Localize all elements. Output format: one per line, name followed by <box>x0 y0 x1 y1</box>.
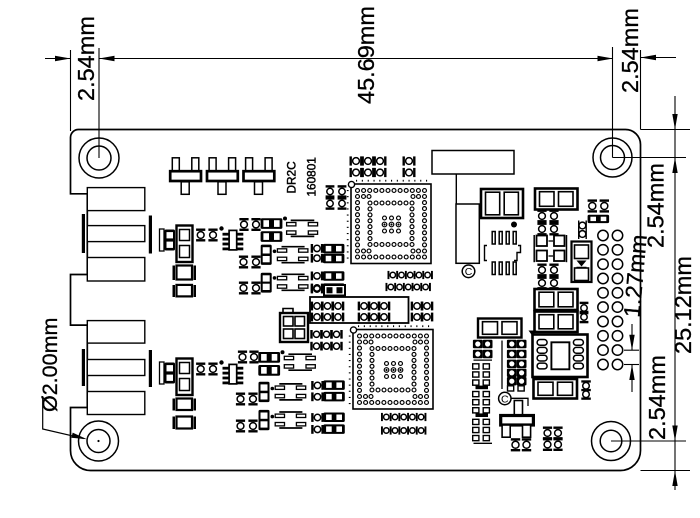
channel2 mid dark comp vertical <box>259 382 270 402</box>
connector J2 pad 2 <box>87 360 145 376</box>
extension line top-left hole center <box>98 48 100 158</box>
extension line board right edge top <box>640 50 642 130</box>
pin header J3 2x10 circles <box>598 230 623 369</box>
channel2 row1 pads <box>238 351 247 364</box>
wire from copyright mark <box>511 398 528 406</box>
extension line board left edge <box>70 50 72 131</box>
dimension line top-right 2.54mm <box>641 57 677 59</box>
pad chain U5 lower A <box>381 413 426 421</box>
svg-text:25.12mm: 25.12mm <box>670 256 696 354</box>
component L1 <box>177 226 193 263</box>
resistor strip B dark pads <box>507 340 517 348</box>
channel1 mid pads <box>239 256 248 269</box>
channel2 jumper JP4 <box>284 354 315 370</box>
BGA footprint U1 <box>347 180 431 264</box>
svg-text:45.69mm: 45.69mm <box>353 6 379 104</box>
dimension line 45.69mm <box>99 58 613 60</box>
dark comp above K1 <box>324 285 345 296</box>
pad D3 <box>173 399 176 411</box>
svg-text:2.54mm: 2.54mm <box>644 355 670 440</box>
SOIC U6 vertical <box>485 232 521 275</box>
PCB board outline <box>71 130 641 471</box>
pads near silkscreen 2x2 <box>326 185 335 198</box>
capacitor C2 dark <box>165 363 176 384</box>
extension line top-right hole center right <box>613 157 687 159</box>
connector J1 pad 1 <box>87 188 145 211</box>
channel1 right pads row2 <box>311 254 324 263</box>
mid square pads <box>533 235 535 262</box>
leader line to bottom-left hole <box>43 396 84 439</box>
component C21 mid <box>535 289 578 310</box>
channel1 mid dark comp vertical <box>261 245 272 265</box>
component X1 four-pad <box>283 309 293 314</box>
pads right of C23 <box>581 380 591 382</box>
strip B white pads <box>508 386 514 391</box>
channel1 right pads row3 <box>311 272 324 281</box>
channel2 right pads row3 <box>311 413 324 422</box>
pad strip right of J1 <box>160 229 165 251</box>
channel1 right pads row1 <box>311 244 324 253</box>
antenna area rectangle <box>432 151 514 175</box>
connector J2 pad 3 <box>87 392 145 415</box>
mounting hole bottom-left <box>79 421 119 461</box>
svg-text:2.54mm: 2.54mm <box>617 8 643 93</box>
pad chain U5 lower B <box>381 426 426 434</box>
strip A bar 2 <box>476 413 489 417</box>
K1 pads group A <box>311 302 324 311</box>
pad D4 <box>173 417 176 430</box>
connector J2 pad 1 <box>87 321 145 344</box>
mid pads col B <box>537 264 546 277</box>
mounting hole bottom-right <box>592 422 631 461</box>
extension line board bottom edge right <box>641 470 691 472</box>
BGA footprint U5 <box>349 325 433 409</box>
vertical pads x584 low <box>580 302 589 315</box>
connector J1 side bars <box>82 214 85 253</box>
channel1 row1 dark comp <box>261 218 283 229</box>
arrows 1.27mm <box>631 324 633 350</box>
antenna feed line <box>455 174 457 204</box>
SOIC U4 channel 2 <box>223 364 244 384</box>
fiducial dot <box>511 222 517 228</box>
channel1 jumper JP2 <box>277 247 308 263</box>
connector J2 side bars <box>82 349 85 386</box>
channel1 jumper JP3 <box>277 274 308 290</box>
component L2 <box>177 359 193 396</box>
channel1 right pads row4 <box>311 284 324 293</box>
capacitor C1 dark <box>165 230 176 251</box>
resistor pair ch2 <box>196 363 205 376</box>
svg-text:2.54mm: 2.54mm <box>73 16 99 101</box>
channel2 jumper JP6 <box>275 412 305 428</box>
channel1 row1 pads <box>239 218 248 231</box>
dimension line top-left 2.54mm <box>45 58 71 60</box>
resistor pair right <box>403 156 416 165</box>
component box below antenna <box>456 204 479 263</box>
channel2 low pads <box>236 420 245 433</box>
mounting hole top-left <box>79 138 119 178</box>
mid pads col A <box>537 210 546 223</box>
svg-text:160801: 160801 <box>305 157 319 196</box>
channel1 jumper JP1 <box>287 220 318 236</box>
strip A pad pairs lower <box>473 419 479 424</box>
resistor pair ch1 <box>196 229 205 242</box>
component C24 <box>478 319 522 338</box>
svg-text:Ø2.00mm: Ø2.00mm <box>38 318 62 412</box>
pads 2x2 right of switch <box>543 427 552 440</box>
svg-text:C: C <box>501 393 509 405</box>
pads above K1 left <box>311 285 324 294</box>
switch SW1 <box>514 401 522 417</box>
pads below K1 group <box>310 330 322 339</box>
channel2 right pads row4 <box>311 425 324 434</box>
strip A end line <box>474 442 493 444</box>
pads below switch <box>511 438 520 451</box>
strip A pad pairs upper <box>473 364 479 369</box>
connector J1 pad 2 <box>87 226 145 242</box>
strip A separator <box>474 359 493 361</box>
pads right of K1 <box>411 302 424 311</box>
strip A bar 1 <box>476 386 489 390</box>
resistor row R top A <box>350 156 363 165</box>
svg-text:DR2C: DR2C <box>285 161 299 194</box>
transistor Q3 <box>244 158 275 195</box>
component C23 below QFN <box>534 379 578 399</box>
pad strip right of J2 <box>160 362 165 384</box>
connector J1 pad 3 <box>87 258 145 282</box>
pad D1 <box>173 266 176 281</box>
transistor Q2 <box>207 158 238 195</box>
copyright mark circle <box>462 265 475 278</box>
channel2 right pads row2 <box>311 392 324 401</box>
channel1 low dark comp vertical <box>261 273 272 293</box>
SOIC U3 channel 1 <box>223 230 244 250</box>
transistor Q1 <box>170 158 201 195</box>
vertical pads x582 <box>578 221 580 240</box>
strip A pad pairs middle <box>473 392 479 397</box>
extension line bottom-right hole center right <box>611 440 686 442</box>
svg-text:C: C <box>465 266 473 278</box>
channel2 row1 dark comp <box>258 352 280 363</box>
pads pair top right <box>588 199 597 212</box>
extension line top-right hole center <box>612 47 614 158</box>
pad chain U1 lower B <box>386 283 431 291</box>
channel2 mid pads <box>236 393 245 406</box>
tick line header row 10 <box>624 364 639 366</box>
channel2 jumper JP5 <box>275 384 305 400</box>
pad D2 <box>173 285 176 297</box>
QFN U7 <box>533 335 588 378</box>
extension line board top edge right <box>641 129 691 131</box>
component C22 mid <box>535 312 578 333</box>
component block K1 <box>310 297 409 323</box>
component C10 two-pad <box>481 189 523 218</box>
K1 pads group B <box>358 302 371 311</box>
channel1 row2 dark comp <box>261 231 283 242</box>
channel2 right pads row1 <box>311 381 324 390</box>
channel2 row2 dark comp <box>258 365 280 376</box>
resistor row R top B <box>350 168 363 177</box>
wire mid vertical <box>501 341 503 390</box>
resistor strip A dark pads <box>473 340 483 348</box>
component C20 mid <box>535 189 578 210</box>
channel2 low dark comp vertical <box>259 410 270 430</box>
pad chain U1 lower A <box>388 271 433 279</box>
mounting hole top-right <box>593 138 632 177</box>
dark comp top right <box>588 215 610 223</box>
diode D5 <box>572 242 592 283</box>
channel1 low pads <box>239 282 248 295</box>
dimension line right side vertical <box>674 96 676 490</box>
copyright mark circle 2 <box>499 392 511 404</box>
tick line header row 9 <box>624 349 639 351</box>
